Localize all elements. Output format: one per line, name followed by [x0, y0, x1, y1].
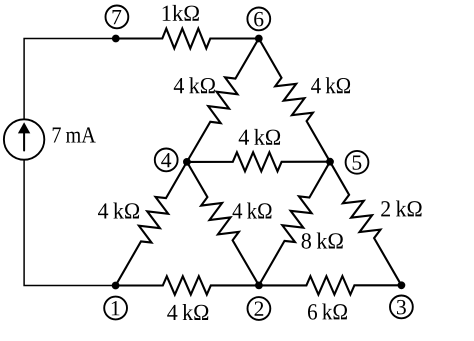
- node label: circled 3: [390, 296, 413, 319]
- node 4 junction dot: [183, 158, 191, 166]
- label: 8 kOhm value (5-2): [302, 233, 343, 249]
- node 2 junction dot: [255, 282, 263, 290]
- resistor 4 kOhm between node 6 and node 5: [259, 39, 330, 162]
- wire: from current source bottom down to bottom-left corner, right to node 1: [24, 160, 116, 286]
- resistor 1 kOhm between node 7 and node 6 (top wire): [116, 29, 259, 49]
- resistor 4 kOhm between node 6 and node 4: [187, 39, 259, 162]
- label: 4 kOhm value (4-1): [98, 203, 139, 219]
- node label: circled 4: [155, 149, 178, 172]
- wire: from node 7 dot left to top-left corner, down to current source top: [24, 39, 116, 120]
- node 1 junction dot: [112, 282, 120, 290]
- label: 1 kOhm value (top): [163, 5, 199, 21]
- label: 6 kOhm value (2-3): [308, 303, 347, 319]
- label: 2 kOhm value (5-3): [381, 200, 421, 216]
- node label: circled 2: [248, 297, 271, 320]
- label: 4 kOhm value (6-4): [174, 77, 215, 93]
- label: 4 kOhm value (6-5): [311, 77, 350, 93]
- current source I1 7 mA (circle with upward arrow): [4, 119, 44, 159]
- resistor 8 kOhm between node 5 and node 2: [259, 162, 330, 286]
- node label: circled 6: [247, 8, 270, 31]
- resistor 6 kOhm between node 2 and node 3 (bottom wire): [259, 276, 402, 295]
- node 7 junction dot: [112, 35, 120, 43]
- node 5 junction dot: [326, 158, 334, 166]
- node 3 junction dot: [398, 281, 406, 289]
- node label: circled 7: [106, 6, 129, 29]
- label: 7 mA source value: [53, 127, 96, 142]
- resistor 4 kOhm between node 4 and node 2: [187, 162, 259, 286]
- resistor 4 kOhm between node 4 and node 1: [116, 162, 187, 286]
- resistor 2 kOhm between node 5 and node 3: [330, 162, 401, 286]
- resistor 4 kOhm between node 1 and node 2 (bottom wire): [116, 276, 259, 295]
- node 6 junction dot: [255, 35, 263, 43]
- label: 4 kOhm value (4-2): [232, 203, 271, 219]
- label: 4 kOhm value (4-5): [239, 129, 280, 145]
- resistor 4 kOhm between node 4 and node 5 (middle wire): [187, 152, 330, 171]
- node label: circled 5: [346, 151, 369, 174]
- label: 4 kOhm value (1-2): [167, 304, 208, 320]
- node label: circled 1: [104, 297, 127, 320]
